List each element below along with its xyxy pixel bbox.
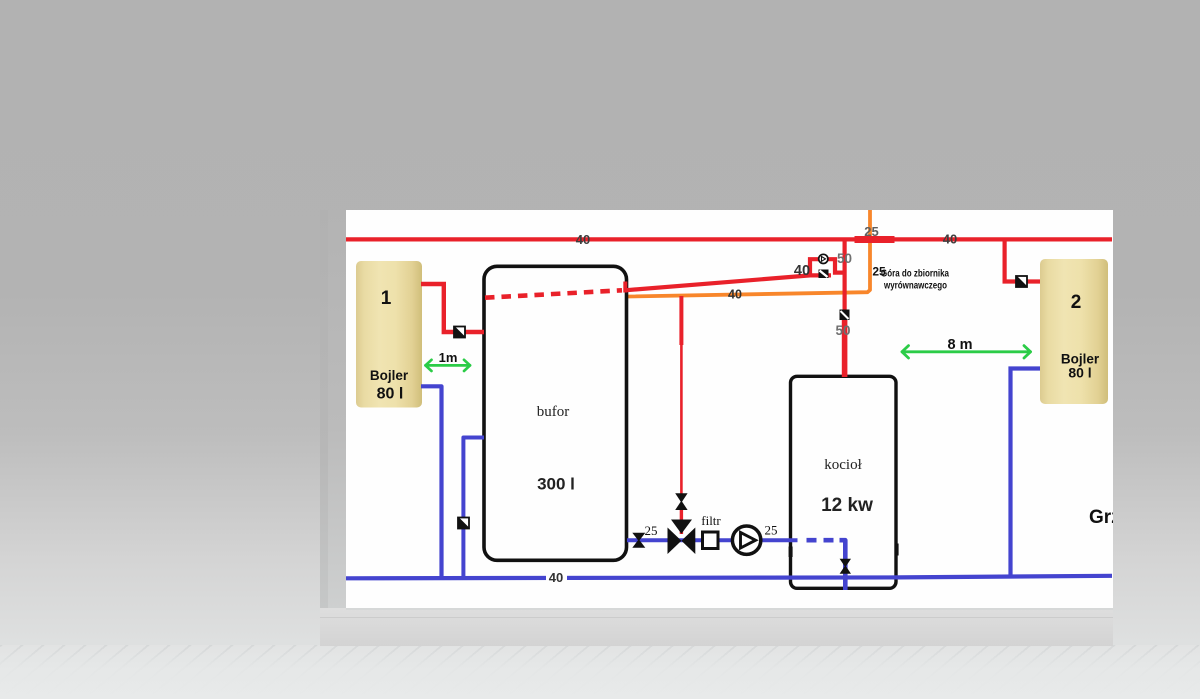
svg-text:Bojler: Bojler (370, 368, 409, 383)
kociol right edge stub (895, 544, 899, 556)
valve V3 (slash square) on B2 branch (1016, 276, 1027, 287)
blue pipe: kociol bottom riser elbow (840, 540, 846, 590)
svg-text:filtr: filtr (701, 513, 721, 528)
orange pipe: horizontal run to expansion tank riser (627, 210, 870, 297)
svg-text:kocioł: kocioł (824, 457, 862, 473)
shutoff valve (hourglass) on kociol bottom riser (840, 559, 851, 574)
red pipe: stub at buffer right edge (623, 282, 627, 293)
valve V5 (slash square) on loop bottom (819, 270, 829, 279)
svg-text:40: 40 (576, 232, 590, 247)
shutoff valve (hourglass) on buffer outlet (632, 533, 645, 548)
red pipe: dashed buffer feed (485, 290, 622, 297)
photo left gray strip light band (328, 210, 346, 646)
blue pipe: buffer outlet to pump (627, 538, 798, 542)
bottom label 40 white knockout (546, 571, 567, 583)
svg-text:50: 50 (835, 323, 850, 338)
boiler B2 cylinder (1040, 259, 1108, 404)
svg-text:80 l: 80 l (1068, 365, 1091, 381)
svg-text:40: 40 (728, 288, 742, 302)
blue pipe: B1 outlet elbow (421, 386, 442, 578)
photo left gray strip dark band (320, 210, 328, 646)
svg-text:Góra do zbiornika: Góra do zbiornika (881, 268, 949, 280)
red pipe: diagonal buffer to loop (625, 275, 810, 290)
valve V2 (slash square) on buffer left riser (458, 518, 469, 529)
3-way mixing valve (668, 520, 696, 555)
blue pipe: B2 outlet elbow (1011, 369, 1041, 577)
kociol left edge stub (789, 547, 793, 558)
red pipe: B2 branch (1005, 241, 1040, 282)
blue pipe: buffer left riser (463, 438, 484, 578)
svg-text:25: 25 (864, 224, 878, 239)
blue pipe: dashed pump to kociol (807, 538, 837, 543)
svg-text:40: 40 (794, 263, 810, 279)
green arrow 8m (902, 346, 1031, 358)
pump P2 (small circle) on loop top (819, 254, 828, 263)
svg-text:40: 40 (549, 570, 563, 585)
svg-text:8 m: 8 m (948, 337, 973, 353)
faint shadow line at panel bottom (346, 608, 1113, 610)
valve V4 (black square white slash) on kociol riser (840, 310, 850, 321)
faint seam line under panel (320, 617, 1113, 618)
red pipe: kociol riser lower thick (842, 318, 848, 377)
boiler B1 cylinder (356, 261, 422, 408)
svg-text:2: 2 (1071, 292, 1082, 313)
red pipe: pump bypass loop (810, 259, 846, 277)
svg-text:40: 40 (943, 232, 957, 247)
svg-text:12 kw: 12 kw (821, 495, 873, 516)
red pipe: kociol riser upper (842, 239, 846, 318)
filter square (703, 532, 719, 549)
svg-text:1m: 1m (439, 350, 458, 365)
svg-text:Grze: Grze (1089, 507, 1131, 528)
pump P1 circle (732, 526, 760, 554)
red pipe: supply main 40 (346, 237, 1112, 241)
green arrow 1m (426, 360, 471, 371)
red pipe: B1 branch (421, 284, 484, 332)
svg-text:25: 25 (645, 523, 658, 538)
buffer tank outline (484, 266, 627, 560)
red pipe: 3way valve riser (679, 296, 683, 345)
svg-text:bufor: bufor (537, 404, 570, 420)
blue pipe: bottom return main (346, 576, 1112, 579)
photo bottom gray strip (320, 608, 1113, 646)
floor texture (0, 645, 1200, 699)
svg-text:25: 25 (765, 523, 778, 538)
red pipe: loop bottom segment (808, 273, 831, 277)
svg-text:300 l: 300 l (537, 475, 575, 494)
svg-text:wyrównawczego: wyrównawczego (883, 280, 947, 292)
svg-text:1: 1 (381, 288, 392, 309)
boiler (kociol) outline (791, 376, 897, 588)
red pipe: thick 25 tap segment on main (855, 236, 895, 243)
svg-text:80 l: 80 l (377, 386, 404, 403)
svg-text:50: 50 (837, 251, 852, 266)
valve V1 (slash square) on B1 branch (454, 327, 465, 338)
white diagram panel (346, 210, 1113, 608)
shutoff valve (hourglass) on 3way riser (675, 493, 687, 510)
